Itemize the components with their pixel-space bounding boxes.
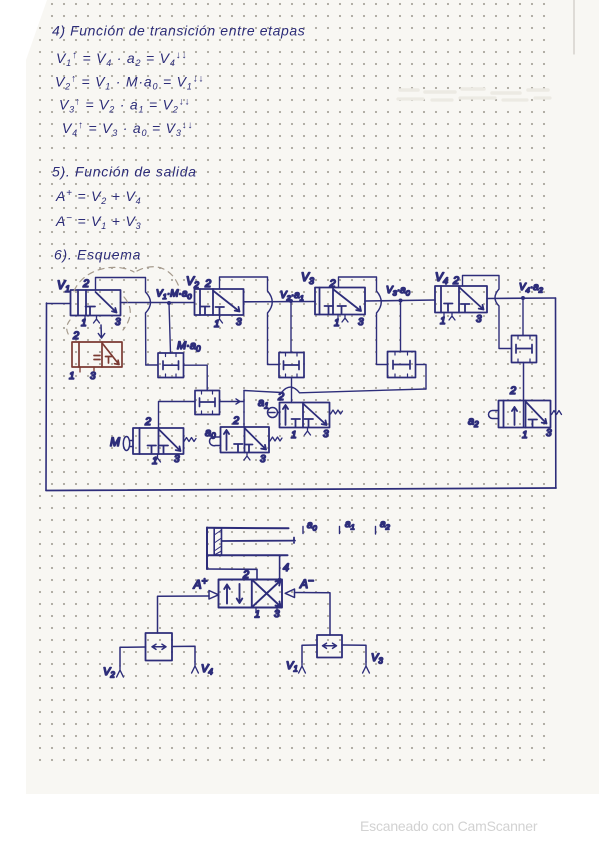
svg-text:V1: V1 — [286, 660, 298, 674]
svg-text:V1: V1 — [57, 278, 70, 294]
wire shuttle1 left to V2 — [120, 647, 146, 666]
valve a1 spring — [331, 410, 343, 414]
svg-text:3: 3 — [358, 317, 364, 328]
svg-text:V3↑ = V2 · a1 = V2↓↓: V3↑ = V2 · a1 = V2↓↓ — [59, 97, 190, 115]
node V1.M.a0 junction — [167, 301, 171, 305]
cylinder body — [207, 528, 289, 570]
svg-text:3: 3 — [323, 429, 329, 440]
V3 bottom port stub and labels — [338, 315, 348, 323]
svg-text:a0: a0 — [307, 520, 318, 533]
svg-text:A− = V1 + V3: A− = V1 + V3 — [55, 213, 141, 231]
svg-text:M·a0: M·a0 — [177, 340, 201, 354]
svg-text:V1↑ = V4 · a2 = V4↓↓: V1↑ = V4 · a2 = V4↓↓ — [56, 50, 187, 68]
wire junction down to pilot box 4 — [522, 298, 524, 336]
svg-text:2: 2 — [144, 416, 151, 428]
svg-text:6). Esquema: 6). Esquema — [54, 247, 141, 263]
svg-text:V4·a2: V4·a2 — [519, 282, 544, 295]
position tick a0 — [302, 527, 304, 534]
svg-text:2: 2 — [452, 275, 459, 287]
svg-text:1: 1 — [214, 319, 220, 330]
svg-text:2: 2 — [232, 415, 239, 427]
V1 bottom port stubs — [85, 316, 100, 324]
valve V2 — [195, 289, 244, 315]
wire shuttle2 right to V3 — [342, 645, 366, 662]
wire junction down to pilot box 2 — [290, 301, 292, 353]
valve a0 spring — [270, 437, 282, 441]
wire junction down to AND box Ma0 — [169, 303, 171, 353]
cylinder rod — [222, 538, 296, 544]
svg-text:3: 3 — [476, 314, 482, 325]
wire pilot box2 down to valve a1 — [291, 378, 293, 403]
wire A+ to shuttle 1 — [158, 596, 210, 633]
svg-text:V2: V2 — [186, 274, 199, 290]
svg-text:2: 2 — [82, 278, 89, 290]
wire bus V4 to right bus — [487, 297, 556, 300]
svg-text:2: 2 — [509, 385, 516, 397]
node V2.a1 junction — [289, 299, 293, 303]
svg-text:A+: A+ — [193, 577, 208, 592]
svg-text:V4↑ = V3 · a0 = V3↓↓: V4↑ = V3 · a0 = V3↓↓ — [62, 120, 193, 138]
valve V3 — [315, 288, 365, 315]
supply bus right vertical wire — [555, 298, 557, 488]
V1 exhaust fork — [299, 662, 306, 673]
svg-text:1: 1 — [440, 316, 446, 327]
svg-text:3: 3 — [174, 454, 180, 465]
svg-text:2: 2 — [72, 330, 79, 342]
svg-text:3: 3 — [115, 317, 121, 328]
wire V3 feedback with hop over bus — [339, 277, 388, 365]
svg-text:V3: V3 — [371, 652, 383, 666]
paper crease line top right — [573, 0, 575, 54]
svg-text:1: 1 — [334, 318, 340, 329]
svg-text:1: 1 — [69, 371, 75, 382]
supply bus left vertical wire — [45, 303, 48, 490]
node V4.a2 junction — [521, 296, 525, 300]
svg-text:V3·a0: V3·a0 — [386, 285, 411, 298]
valve V1 red redrawn — [72, 342, 122, 372]
wire bus V1 to V2 — [121, 302, 195, 304]
valve a0 actuator — [210, 437, 221, 446]
cylinder piston — [214, 528, 221, 555]
pilot triangle A+ — [209, 591, 219, 600]
pencil arc right of V1 — [123, 297, 130, 330]
wire V4 feedback with hop over bus — [463, 276, 512, 349]
wire V2 feedback with hop over bus — [220, 277, 280, 365]
node valve port4 junction — [278, 578, 282, 582]
pilot box 3 — [388, 352, 416, 378]
svg-text:2: 2 — [204, 278, 211, 290]
svg-text:V2↑ = V1 · M·a0 = V1↓↓: V2↑ = V1 · M·a0 = V1↓↓ — [55, 74, 204, 92]
V4 bottom port stub and labels — [444, 313, 455, 321]
svg-text:1: 1 — [81, 318, 87, 329]
pilot box 4 — [512, 336, 537, 363]
wire A- to shuttle 2 — [295, 593, 331, 636]
pilot box 2 — [279, 353, 304, 378]
long pilot wire with hop over a1 wire — [244, 387, 426, 393]
svg-text:a1: a1 — [258, 397, 269, 411]
wire bus to V1 — [47, 303, 71, 305]
svg-text:3: 3 — [274, 609, 280, 620]
position tick a1 — [339, 527, 341, 534]
valve a2 actuator — [489, 411, 499, 419]
svg-text:A−: A− — [299, 576, 314, 591]
valve a0 — [221, 427, 270, 453]
shuttle valve 2 — [317, 635, 342, 658]
svg-text:A+ = V2 + V4: A+ = V2 + V4 — [55, 188, 141, 206]
svg-text:3: 3 — [260, 454, 266, 465]
svg-text:1: 1 — [255, 610, 261, 621]
wire pilot box3 output to long wire — [416, 365, 427, 390]
a1 bottom stubs and labels — [305, 428, 311, 436]
V2 bottom port stub and labels — [217, 315, 223, 323]
svg-text:2: 2 — [329, 278, 336, 290]
wire a0 node vertical — [243, 391, 245, 428]
valve a1 — [280, 403, 330, 428]
svg-text:M: M — [110, 435, 120, 449]
pencil arc above V1 — [74, 267, 180, 291]
substitution arrow V1 to red valve — [98, 325, 104, 338]
valve a2 — [499, 401, 551, 428]
svg-text:V4: V4 — [435, 270, 448, 286]
pilot box 1 — [195, 391, 220, 415]
wire V1 feedback into box left — [146, 364, 158, 366]
valve a1 actuator — [268, 408, 280, 418]
valve V4 — [435, 286, 487, 313]
wire bus V2 to V3 — [244, 301, 316, 303]
V2 exhaust fork — [117, 666, 124, 677]
faint bleed-through band — [398, 89, 550, 100]
position tick a2 — [375, 527, 377, 535]
svg-text:V2: V2 — [103, 666, 115, 680]
AND box M.a0 — [158, 353, 184, 378]
svg-text:3: 3 — [90, 371, 96, 382]
wire pilot box4 down to valve a2 — [523, 363, 525, 428]
svg-text:a2: a2 — [468, 416, 479, 430]
svg-text:V1·M·a0: V1·M·a0 — [156, 289, 192, 302]
svg-text:a1: a1 — [345, 519, 355, 532]
svg-text:2: 2 — [277, 391, 284, 403]
wire bus V3 to V4 — [365, 300, 435, 301]
valve M manual actuator — [123, 437, 133, 451]
valve a2 spring — [552, 411, 562, 415]
directional valve 4/2 — [219, 580, 283, 608]
svg-text:4) Función de transición entre: 4) Función de transición entre etapas — [52, 23, 305, 39]
svg-text:3: 3 — [236, 317, 242, 328]
valve bottom stubs — [256, 608, 277, 612]
a0 bottom stubs and labels — [244, 453, 250, 461]
pencil arc left of V1 — [67, 320, 71, 338]
wire junction down to pilot box 3 — [400, 301, 402, 352]
svg-text:V3: V3 — [301, 270, 314, 286]
valve M — [133, 428, 184, 454]
V3 exhaust fork — [363, 662, 370, 673]
svg-text:1: 1 — [291, 430, 297, 441]
M bottom stubs and labels — [155, 454, 161, 462]
shuttle valve 1 — [146, 633, 173, 661]
svg-text:V2·a1: V2·a1 — [280, 290, 304, 303]
svg-text:1: 1 — [522, 430, 528, 441]
svg-text:1: 1 — [152, 456, 158, 467]
wire pilot box1 to valve M — [159, 402, 196, 429]
wire cylinder right port to valve port 4 — [279, 555, 281, 579]
svg-text:5). Función de salida: 5). Función de salida — [52, 164, 197, 180]
valve M spring — [184, 438, 196, 442]
white page corner wedge — [26, 0, 47, 60]
svg-text:4: 4 — [283, 562, 289, 574]
valve V1 — [71, 290, 121, 316]
node V3.a0 junction — [399, 299, 403, 303]
V4 exhaust fork — [192, 662, 199, 673]
svg-text:V4: V4 — [201, 663, 213, 677]
wire V1 feedback with hop over bus — [96, 278, 151, 366]
wire pilot box1 right to a0 node — [220, 399, 245, 404]
svg-text:a0: a0 — [205, 427, 216, 441]
wire shuttle1 right to V4 — [172, 646, 195, 662]
wire shuttle2 left to V1 — [302, 645, 317, 662]
supply bus bottom wire — [46, 488, 556, 491]
svg-text:a2: a2 — [380, 519, 391, 532]
wire box Ma0 output to pilot box 1 — [184, 365, 208, 390]
pilot triangle A- — [285, 589, 294, 598]
svg-text:3: 3 — [546, 428, 552, 439]
wire cylinder left port to valve port 2 — [207, 569, 257, 580]
